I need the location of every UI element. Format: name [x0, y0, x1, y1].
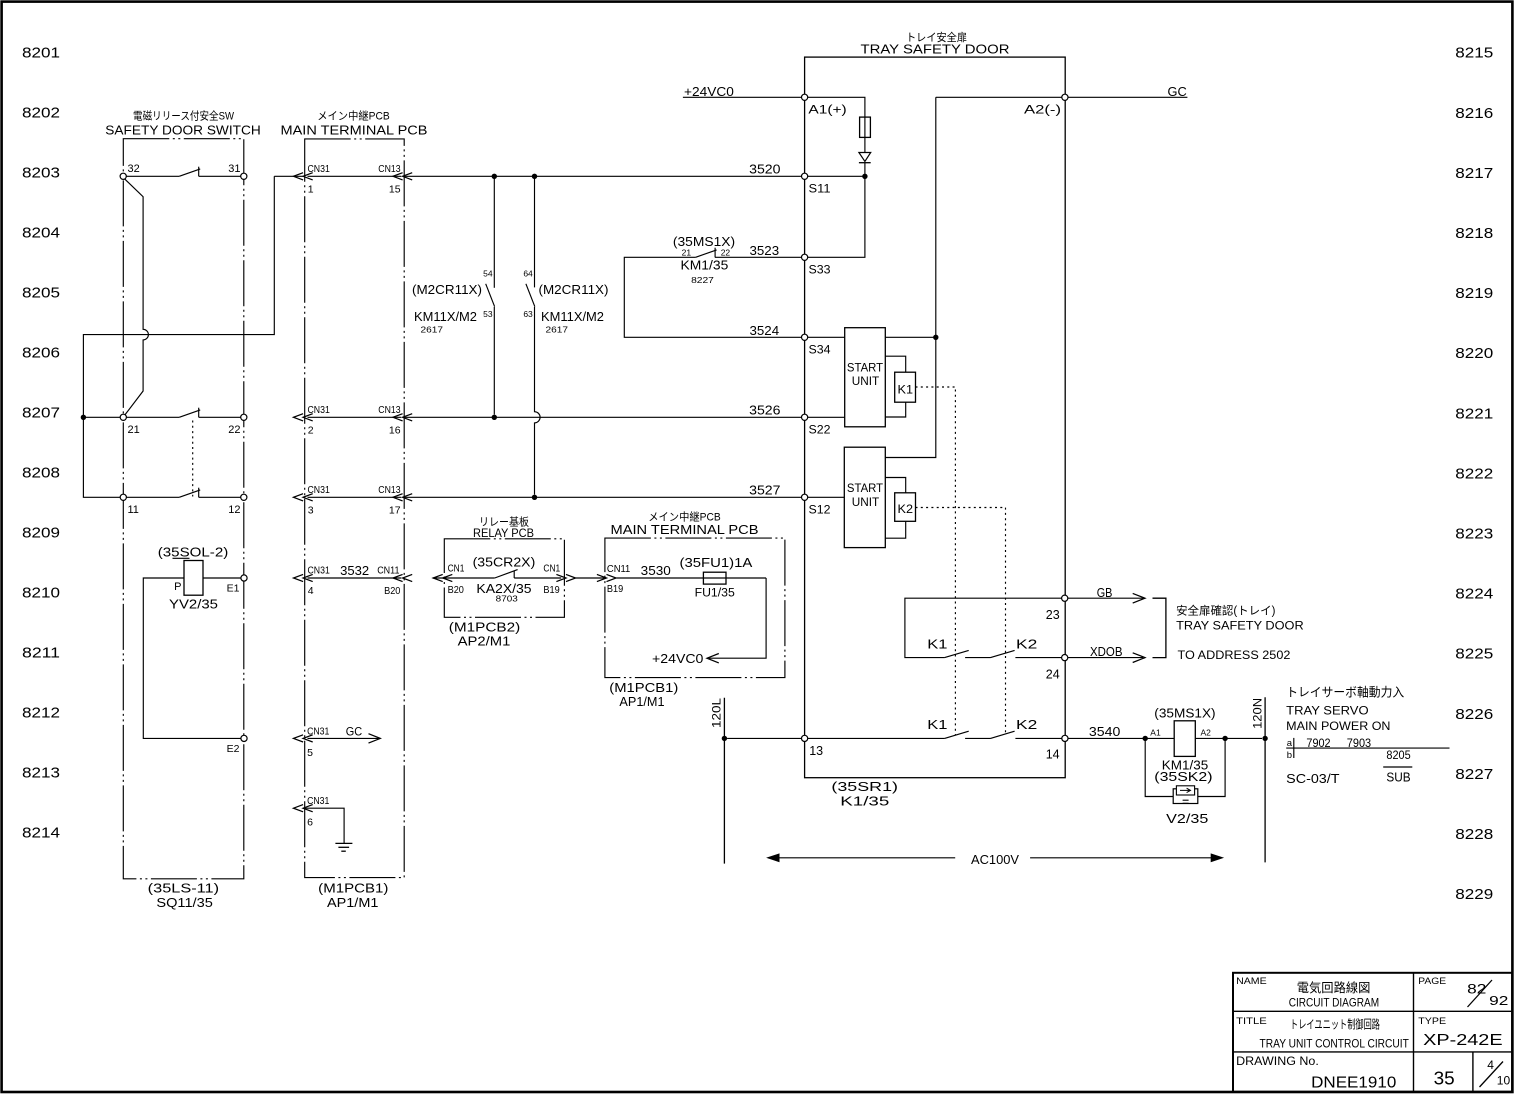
varistor branch V2/35	[1145, 738, 1173, 796]
svg-text:TRAY SAFETY DOOR: TRAY SAFETY DOOR	[861, 43, 1010, 57]
svg-text:b: b	[1287, 750, 1292, 761]
rail 120N	[1264, 697, 1266, 862]
svg-text:A2(-): A2(-)	[1024, 104, 1061, 116]
svg-text:B20: B20	[384, 585, 400, 597]
svg-text:XDOB: XDOB	[1090, 645, 1123, 659]
svg-text:21: 21	[128, 424, 140, 436]
main terminal PCB box (M1PCB1)	[305, 139, 405, 878]
terminal 31	[241, 173, 247, 179]
svg-text:8211: 8211	[22, 644, 60, 661]
wire coil to 120N	[1195, 737, 1262, 739]
terminal 22	[241, 414, 247, 420]
svg-text:CN31: CN31	[307, 795, 329, 807]
svg-text:8205: 8205	[1386, 748, 1411, 762]
wire from B20 arrow to contact	[433, 577, 495, 579]
destination bracket	[1153, 598, 1166, 657]
svg-text:13: 13	[809, 744, 823, 758]
svg-text:A2: A2	[1201, 728, 1212, 738]
wire start unit 1 output to A2 riser	[885, 336, 936, 338]
svg-text:CN13: CN13	[378, 163, 400, 175]
svg-text:4: 4	[1487, 1058, 1494, 1072]
svg-text:(M1PCB1): (M1PCB1)	[609, 681, 678, 695]
svg-text:AP1/M1: AP1/M1	[619, 695, 664, 709]
svg-text:S34: S34	[809, 345, 832, 357]
svg-text:32: 32	[128, 163, 140, 175]
wire S11 to diode branch	[808, 175, 865, 177]
svg-text:2617: 2617	[421, 324, 444, 334]
junction	[532, 174, 537, 179]
svg-text:S22: S22	[809, 425, 831, 437]
svg-text:22: 22	[228, 424, 240, 436]
svg-text:8205: 8205	[22, 284, 60, 301]
connector CN11 pin B20	[393, 574, 412, 581]
svg-text:CN31: CN31	[308, 484, 330, 496]
svg-text:35: 35	[1434, 1068, 1455, 1088]
wire 3540	[1068, 737, 1174, 739]
svg-text:17: 17	[389, 504, 401, 516]
svg-text:(35FU1)1A: (35FU1)1A	[680, 556, 754, 570]
terminal A2(-)	[1062, 94, 1068, 100]
title block frame	[1233, 973, 1512, 1092]
main terminal PCB box 2 (M1PCB1)	[605, 538, 785, 678]
terminal E1	[241, 575, 247, 581]
svg-text:GB: GB	[1097, 586, 1113, 600]
svg-text:SUB: SUB	[1386, 770, 1410, 784]
svg-text:NAME: NAME	[1236, 976, 1267, 987]
terminal S12	[802, 494, 808, 500]
svg-text:SAFETY DOOR SWITCH: SAFETY DOOR SWITCH	[105, 124, 261, 138]
svg-text:8206: 8206	[22, 344, 60, 361]
contact K1 (row 13-14)	[945, 731, 969, 738]
svg-text:53: 53	[483, 309, 493, 319]
svg-text:8219: 8219	[1455, 285, 1493, 302]
ground symbol	[335, 842, 352, 844]
terminal 13	[802, 735, 808, 741]
svg-text:4: 4	[308, 585, 314, 597]
svg-text:CN31: CN31	[308, 163, 330, 175]
relay PCB box (M1PCB2)	[444, 539, 564, 618]
wire row through PCB	[308, 496, 402, 498]
contact K2 (row 13-14)	[991, 731, 1015, 738]
svg-text:トレイユニット制御回路: トレイユニット制御回路	[1290, 1016, 1380, 1031]
svg-text:14: 14	[1046, 747, 1060, 761]
contact KM11X/M2 64-63 (M2CR11X)	[534, 176, 536, 287]
svg-text:22: 22	[721, 248, 731, 258]
svg-text:MAIN TERMINAL PCB: MAIN TERMINAL PCB	[611, 523, 759, 537]
connector CN31 pin 3	[294, 494, 313, 501]
wire 3532	[308, 577, 402, 579]
svg-text:8204: 8204	[22, 224, 60, 241]
svg-text:(M2CR11X): (M2CR11X)	[412, 283, 482, 297]
svg-text:8227: 8227	[1455, 766, 1493, 783]
junction	[1262, 736, 1267, 741]
svg-text:8213: 8213	[22, 764, 60, 781]
svg-text:8210: 8210	[22, 584, 60, 601]
svg-text:S12: S12	[809, 505, 831, 517]
svg-text:2: 2	[308, 424, 314, 436]
svg-text:8202: 8202	[22, 104, 60, 121]
relay coil K2	[885, 478, 905, 493]
XDOB output arrow	[1068, 657, 1143, 659]
svg-text:16: 16	[389, 424, 401, 436]
wire row 23	[905, 598, 1062, 657]
svg-text:(35MS1X): (35MS1X)	[1154, 707, 1215, 721]
terminal 12	[241, 494, 247, 500]
connector CN31 pin 4	[294, 574, 313, 581]
svg-text:DRAWING No.: DRAWING No.	[1236, 1056, 1319, 1068]
svg-text:AP2/M1: AP2/M1	[458, 635, 511, 649]
svg-text:3532: 3532	[340, 563, 369, 578]
svg-text:8223: 8223	[1455, 526, 1493, 543]
svg-text:SC-03/T: SC-03/T	[1286, 772, 1340, 786]
wire S22 into start unit 1	[808, 416, 845, 418]
svg-text:S33: S33	[809, 265, 831, 277]
terminal E2	[241, 735, 247, 741]
contact K1 (row 24)	[945, 650, 969, 657]
divider line a/b	[1286, 747, 1449, 749]
svg-text:3540: 3540	[1089, 724, 1120, 739]
wire S12 into start unit 2	[808, 496, 845, 498]
connector CN1 pin B20 (relay pcb left)	[433, 574, 452, 581]
svg-text:KM11X/M2: KM11X/M2	[541, 310, 604, 324]
svg-text:+24VC0: +24VC0	[652, 651, 703, 666]
fuse FU1/35 (35FU1) 1A	[703, 572, 726, 584]
terminal S34	[802, 334, 808, 340]
contact 11-12	[126, 496, 179, 498]
svg-text:XP-242E: XP-242E	[1423, 1032, 1503, 1049]
svg-text:(35SK2): (35SK2)	[1154, 770, 1212, 784]
connector CN13 pin 17	[393, 494, 412, 501]
svg-text:3520: 3520	[749, 162, 780, 177]
wire 3520 (CN13-15 to S11)	[404, 175, 801, 177]
svg-text:K2: K2	[898, 502, 914, 516]
svg-text:5: 5	[307, 747, 313, 759]
contactor coil KM1/35 (35MS1X)	[1174, 721, 1195, 757]
svg-text:K1/35: K1/35	[840, 794, 889, 808]
svg-text:3: 3	[308, 504, 314, 516]
svg-text:8228: 8228	[1455, 826, 1493, 843]
connector CN31 pin 1	[294, 173, 313, 180]
svg-text:CN1: CN1	[448, 562, 465, 574]
svg-text:8703: 8703	[496, 594, 518, 604]
junction	[1143, 736, 1148, 741]
svg-text:92: 92	[1489, 994, 1508, 1008]
contact 32-31	[126, 175, 179, 177]
K1 actuation dotted link	[916, 387, 956, 735]
svg-text:CIRCUIT DIAGRAM: CIRCUIT DIAGRAM	[1289, 995, 1379, 1009]
junction	[1222, 736, 1227, 741]
svg-text:GC: GC	[346, 725, 363, 739]
connector CN31 pin 6 (ground)	[294, 805, 313, 812]
wire row through PCB	[308, 416, 402, 418]
note SUB (overlined)	[1383, 766, 1412, 768]
svg-text:A1(+): A1(+)	[808, 104, 847, 116]
svg-text:K1: K1	[927, 718, 947, 732]
svg-text:8226: 8226	[1455, 706, 1493, 723]
GB output arrow	[1068, 597, 1143, 599]
contact KA2X/35 (35CR2X)	[495, 570, 518, 578]
svg-text:21: 21	[682, 248, 692, 258]
svg-text:B19: B19	[543, 584, 559, 596]
svg-text:P: P	[174, 581, 181, 593]
wire: left common riser	[83, 176, 274, 497]
mechanical linkage 21-22 to 11-12 (dotted)	[192, 421, 194, 497]
start unit 2 box	[844, 447, 885, 547]
svg-text:MAIN TERMINAL PCB: MAIN TERMINAL PCB	[281, 124, 428, 138]
wire 3530	[617, 577, 767, 579]
svg-text:K2: K2	[1016, 637, 1037, 651]
svg-text:63: 63	[523, 309, 533, 319]
terminal 11	[120, 494, 126, 500]
svg-text:(35SOL-2): (35SOL-2)	[158, 545, 229, 559]
svg-text:(35SR1): (35SR1)	[831, 780, 898, 794]
svg-text:120L: 120L	[712, 697, 724, 728]
terminal 23	[1062, 595, 1068, 601]
svg-text:A1: A1	[1150, 728, 1161, 738]
svg-text:TYPE: TYPE	[1418, 1016, 1446, 1027]
svg-text:8220: 8220	[1455, 345, 1493, 362]
wire +24VC0 supply	[683, 96, 802, 98]
svg-text:メイン中継PCB: メイン中継PCB	[648, 510, 721, 524]
svg-text:8217: 8217	[1455, 165, 1493, 182]
svg-text:8229: 8229	[1455, 886, 1493, 903]
svg-text:(M2CR11X): (M2CR11X)	[539, 283, 609, 297]
svg-text:E2: E2	[227, 743, 240, 755]
wire: stub into CN31-1	[274, 175, 304, 177]
connector CN11 pin B19 (into main PCB 2)	[597, 574, 616, 581]
svg-text:8227: 8227	[691, 275, 714, 285]
rail 120L	[723, 698, 725, 864]
svg-text:120N: 120N	[1252, 698, 1264, 729]
wire row through PCB	[308, 175, 402, 177]
junction	[492, 174, 497, 179]
svg-text:24: 24	[1046, 668, 1060, 682]
svg-text:AP1/M1: AP1/M1	[327, 896, 378, 910]
svg-text:TO ADDRESS 2502: TO ADDRESS 2502	[1178, 648, 1291, 662]
wire between relay PCB and main terminal PCB	[576, 577, 605, 579]
relay coil K1	[885, 356, 905, 372]
wire: solenoid loop E1-E2	[143, 578, 241, 738]
wire 3523 + 35MS1X contact 21-22 + loop to 3524	[624, 257, 801, 337]
svg-text:CN31: CN31	[307, 725, 329, 737]
svg-text:3526: 3526	[749, 403, 780, 418]
svg-text:8209: 8209	[22, 524, 60, 541]
svg-text:K1: K1	[927, 637, 947, 651]
svg-text:8203: 8203	[22, 164, 60, 181]
svg-text:CN1: CN1	[543, 562, 560, 574]
svg-text:8221: 8221	[1455, 405, 1493, 422]
diode	[859, 153, 871, 162]
svg-text:YV2/35: YV2/35	[169, 598, 218, 612]
wire S34 into start unit 1	[808, 336, 845, 338]
svg-text:PAGE: PAGE	[1418, 976, 1446, 987]
svg-text:6: 6	[307, 817, 313, 829]
junction at S11	[862, 174, 867, 179]
svg-text:CN13: CN13	[378, 484, 400, 496]
tray safety door box (35SR1)	[805, 57, 1066, 778]
svg-text:AC100V: AC100V	[971, 852, 1019, 867]
connector CN13 pin 16	[393, 414, 412, 421]
svg-text:15: 15	[389, 183, 401, 195]
svg-text:トレイサーボ軸動力入: トレイサーボ軸動力入	[1286, 685, 1404, 699]
svg-text:S11: S11	[809, 184, 831, 196]
svg-text:8218: 8218	[1455, 225, 1493, 242]
wire GC output	[1068, 96, 1187, 98]
contact KM11X/M2 54-53 (M2CR11X)	[493, 176, 495, 287]
svg-text:10: 10	[1497, 1073, 1511, 1087]
svg-text:12: 12	[228, 504, 240, 516]
svg-text:B20: B20	[448, 584, 464, 596]
wire GC	[308, 737, 379, 739]
svg-text:MAIN POWER ON: MAIN POWER ON	[1286, 719, 1390, 733]
contact K2 (row 24)	[991, 650, 1015, 657]
connector CN1 pin B19 (relay pcb right)	[556, 574, 575, 581]
svg-text:KM1/35: KM1/35	[681, 258, 729, 272]
svg-text:RELAY PCB: RELAY PCB	[473, 526, 534, 540]
svg-text:8225: 8225	[1455, 646, 1493, 663]
svg-text:TRAY SAFETY DOOR: TRAY SAFETY DOOR	[1176, 618, 1304, 632]
terminal 14	[1062, 735, 1068, 741]
svg-text:GC: GC	[1168, 85, 1187, 99]
svg-text:31: 31	[228, 163, 240, 175]
svg-text:CN11: CN11	[607, 563, 631, 575]
wire to +24VC0 arrow	[709, 578, 766, 658]
start unit 1 box	[845, 328, 886, 427]
fuse inside door unit	[808, 97, 865, 152]
svg-text:8207: 8207	[22, 404, 60, 421]
svg-text:電気回路線図: 電気回路線図	[1297, 980, 1371, 995]
svg-text:START: START	[847, 362, 883, 374]
svg-text:8216: 8216	[1455, 105, 1493, 122]
mechanical linkage 32 to 21 (with crossover hop)	[125, 179, 149, 414]
svg-text:CN31: CN31	[308, 565, 330, 577]
svg-text:安全扉確認(トレイ): 安全扉確認(トレイ)	[1176, 604, 1275, 618]
junction	[492, 415, 497, 420]
terminal A1(+)	[802, 94, 808, 100]
svg-text:CN31: CN31	[308, 404, 330, 416]
svg-text:(M1PCB1): (M1PCB1)	[318, 882, 388, 896]
wire to ground	[303, 808, 344, 843]
svg-text:+24VC0: +24VC0	[684, 84, 734, 99]
svg-text:54: 54	[483, 268, 493, 278]
wire: branch to terminal 21	[83, 416, 120, 418]
svg-text:3527: 3527	[749, 483, 780, 498]
svg-text:CN13: CN13	[378, 404, 400, 416]
svg-text:3524: 3524	[750, 323, 780, 338]
svg-text:3523: 3523	[750, 243, 780, 258]
connector CN13 pin 15	[393, 173, 412, 180]
svg-text:3530: 3530	[641, 563, 671, 578]
svg-text:B19: B19	[607, 583, 623, 595]
wire 3526 (CN13-16 to S22)	[404, 416, 801, 418]
wire S33 riser to S11 row	[808, 176, 865, 257]
terminal S11	[802, 173, 808, 179]
svg-text:8224: 8224	[1455, 586, 1493, 603]
svg-text:SQ11/35: SQ11/35	[156, 896, 213, 910]
svg-text:8222: 8222	[1455, 465, 1493, 482]
svg-text:8201: 8201	[22, 44, 60, 61]
svg-text:2617: 2617	[546, 324, 569, 334]
varistor / spark killer symbol	[1173, 789, 1198, 804]
svg-text:8208: 8208	[22, 464, 60, 481]
svg-text:8212: 8212	[22, 704, 60, 721]
svg-text:(35CR2X): (35CR2X)	[473, 555, 536, 569]
svg-text:メイン中継PCB: メイン中継PCB	[317, 109, 390, 123]
safety door switch enclosure (35LS-11) dash-dot box	[123, 139, 244, 879]
K2 actuation dotted link	[916, 508, 1006, 734]
terminal 24	[1062, 655, 1068, 661]
svg-text:CN11: CN11	[377, 565, 399, 577]
svg-text:(35LS-11): (35LS-11)	[148, 882, 219, 896]
svg-text:KM11X/M2: KM11X/M2	[414, 310, 477, 324]
wire 3527 (CN13-17 to S12)	[404, 496, 801, 498]
svg-text:FU1/35: FU1/35	[695, 588, 735, 600]
junction	[532, 495, 537, 500]
svg-text:8214: 8214	[22, 824, 60, 841]
svg-text:V2/35: V2/35	[1166, 812, 1208, 826]
svg-text:START: START	[847, 483, 883, 495]
svg-text:DNEE1910: DNEE1910	[1311, 1075, 1396, 1092]
svg-text:電磁リリース付安全SW: 電磁リリース付安全SW	[133, 109, 235, 123]
svg-text:(M1PCB2): (M1PCB2)	[449, 621, 521, 635]
wire row 13-14 with K1/K2 contacts	[727, 737, 801, 739]
svg-text:TRAY UNIT CONTROL CIRCUIT: TRAY UNIT CONTROL CIRCUIT	[1260, 1037, 1410, 1051]
svg-text:23: 23	[1046, 608, 1060, 622]
junction	[933, 335, 938, 340]
AC100V dimension arrow	[768, 857, 955, 859]
svg-text:TITLE: TITLE	[1236, 1016, 1267, 1027]
svg-text:TRAY SERVO: TRAY SERVO	[1286, 704, 1368, 718]
svg-text:8215: 8215	[1455, 45, 1493, 62]
connector CN31 pin 2	[294, 414, 313, 421]
wire A2 riser top to A2 terminal	[936, 96, 1062, 98]
connector CN31 pin 5 / GC arrow	[294, 735, 313, 742]
junction	[722, 736, 727, 741]
svg-text:E1: E1	[227, 583, 240, 595]
terminal S33	[802, 254, 808, 260]
junction	[81, 415, 86, 420]
svg-text:11: 11	[128, 504, 139, 516]
svg-text:K1: K1	[898, 382, 914, 396]
terminal S22	[802, 414, 808, 420]
terminal 32	[120, 173, 126, 179]
wire A2 riser down to start unit 2	[885, 97, 936, 457]
svg-text:UNIT: UNIT	[852, 376, 880, 388]
terminal 21	[120, 414, 126, 420]
contact 21-22	[126, 416, 179, 418]
svg-text:K2: K2	[1016, 718, 1037, 732]
svg-text:1: 1	[308, 183, 314, 195]
svg-text:UNIT: UNIT	[852, 497, 880, 509]
svg-text:64: 64	[523, 268, 533, 278]
